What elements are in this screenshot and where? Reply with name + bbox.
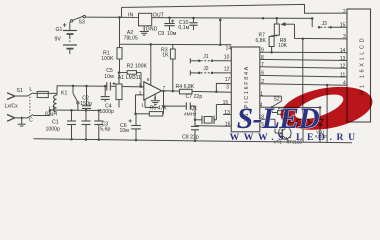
- svg-text:6,8K: 6,8K: [256, 38, 267, 44]
- svg-text:9: 9: [261, 48, 264, 54]
- svg-text:IN: IN: [128, 12, 133, 18]
- svg-text:S3: S3: [79, 20, 85, 26]
- svg-text:C: C: [29, 118, 33, 124]
- svg-text:6: 6: [261, 71, 264, 77]
- svg-text:1K: 1K: [162, 53, 169, 59]
- svg-text:14: 14: [226, 45, 232, 51]
- svg-text:1000p: 1000p: [100, 109, 115, 115]
- svg-text:OUT: OUT: [153, 13, 165, 19]
- svg-text:15: 15: [223, 100, 229, 106]
- svg-text:S-LED: S-LED: [237, 103, 320, 135]
- svg-text:3: 3: [226, 85, 229, 91]
- svg-text:K1: K1: [61, 90, 67, 96]
- svg-text:Q1: Q1: [191, 105, 198, 111]
- svg-text:7: 7: [261, 62, 264, 68]
- svg-text:1: 1: [141, 102, 144, 107]
- svg-text:L: L: [29, 87, 32, 93]
- svg-text:G1: G1: [56, 27, 63, 33]
- svg-text:S1: S1: [17, 88, 23, 94]
- svg-text:13: 13: [224, 110, 230, 116]
- svg-text:12: 12: [224, 67, 230, 73]
- svg-text:S2: S2: [274, 97, 280, 103]
- svg-text:WWW.S-LED.RU: WWW.S-LED.RU: [230, 132, 360, 143]
- svg-text:C1: C1: [52, 120, 59, 126]
- svg-text:0,1м: 0,1м: [178, 25, 189, 31]
- svg-text:H1 16X1LCD: H1 16X1LCD: [360, 36, 366, 95]
- svg-text:10м: 10м: [104, 74, 114, 80]
- svg-text:J2: J2: [203, 66, 209, 72]
- svg-text:10м: 10м: [120, 128, 130, 134]
- svg-text:Lx/Cx: Lx/Cx: [5, 104, 19, 110]
- svg-text:J1: J1: [203, 54, 209, 60]
- svg-text:C9: C9: [158, 31, 165, 37]
- svg-text:10K: 10K: [278, 43, 288, 49]
- svg-text:150p: 150p: [80, 101, 92, 107]
- svg-text:15: 15: [340, 22, 346, 28]
- svg-text:78L05: 78L05: [124, 36, 139, 42]
- svg-text:2: 2: [343, 9, 346, 15]
- svg-text:9V: 9V: [55, 37, 62, 43]
- svg-text:5,6p: 5,6p: [100, 127, 110, 133]
- svg-text:A1 LM311: A1 LM311: [118, 75, 141, 81]
- svg-text:100K: 100K: [101, 56, 114, 62]
- svg-text:R2 100K: R2 100K: [127, 64, 148, 70]
- svg-text:82uH: 82uH: [45, 111, 57, 117]
- svg-text:2: 2: [139, 82, 142, 87]
- svg-text:7: 7: [163, 85, 166, 90]
- svg-text:1000p: 1000p: [46, 127, 61, 133]
- svg-text:4MHz: 4MHz: [184, 112, 197, 118]
- svg-text:8: 8: [147, 77, 150, 82]
- svg-text:R4 6,8K: R4 6,8K: [176, 84, 195, 90]
- svg-text:GND: GND: [146, 26, 158, 32]
- svg-text:J3: J3: [322, 21, 328, 27]
- svg-text:17: 17: [225, 77, 231, 83]
- svg-text:10: 10: [224, 55, 230, 61]
- svg-text:3: 3: [343, 34, 346, 40]
- svg-text:C7 22p: C7 22p: [186, 94, 203, 100]
- svg-text:10м: 10м: [167, 31, 177, 37]
- svg-text:16: 16: [225, 122, 231, 128]
- svg-text:C8 22p: C8 22p: [182, 135, 199, 141]
- svg-text:2: 2: [261, 79, 264, 85]
- svg-text:1: 1: [260, 91, 263, 97]
- svg-text:8: 8: [261, 55, 264, 61]
